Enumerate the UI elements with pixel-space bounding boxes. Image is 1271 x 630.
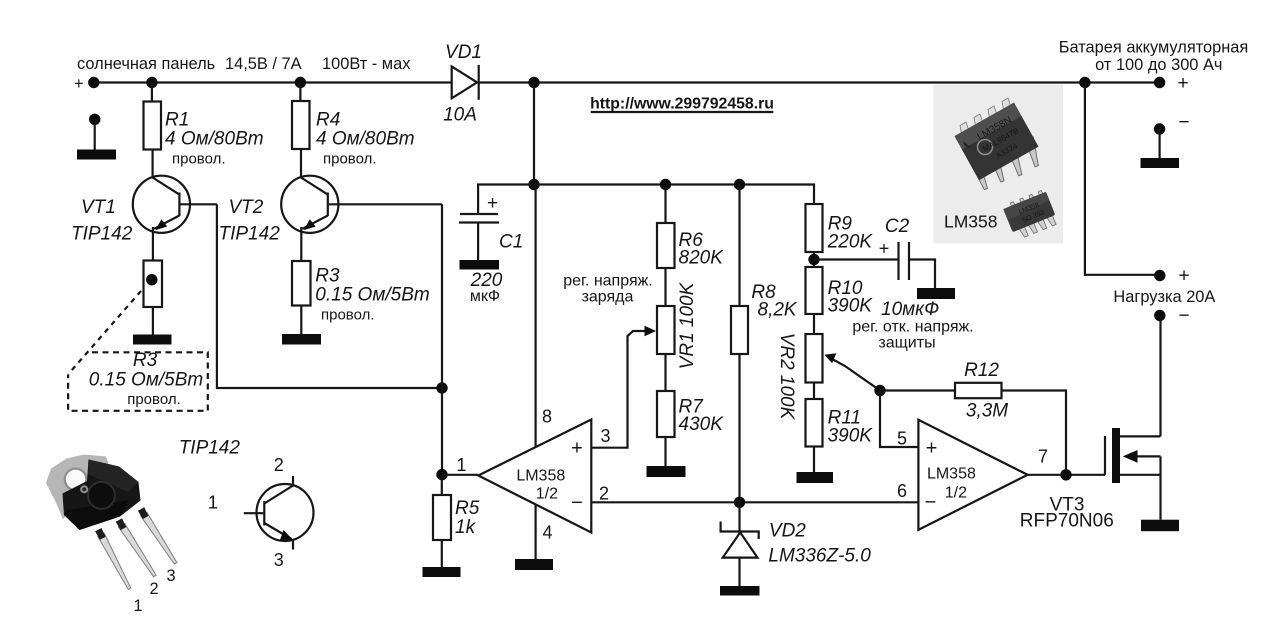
photo: LM358 packages background — [934, 85, 1064, 244]
svg-text:6: 6 — [897, 481, 907, 501]
wire C1 to ground — [477, 223, 479, 261]
svg-text:R5: R5 — [455, 498, 480, 519]
svg-text:мкФ: мкФ — [470, 288, 500, 305]
wire R9 to R10 — [813, 252, 815, 267]
svg-text:R3: R3 — [133, 350, 158, 371]
svg-text:390K: 390K — [828, 426, 874, 447]
svg-text:Батарея аккумуляторная: Батарея аккумуляторная — [1059, 39, 1249, 57]
node: R9/R10 junction — [808, 254, 819, 265]
node: VD2 tap — [734, 497, 745, 508]
svg-text:VT1: VT1 — [81, 197, 116, 218]
node: R1 tap — [146, 77, 157, 88]
transistor symbol (TIP142 pinout) — [208, 455, 314, 570]
svg-text:C1: C1 — [499, 232, 523, 253]
svg-text:LM358: LM358 — [927, 466, 976, 483]
resistor R5 — [433, 495, 480, 540]
resistor R3 — [292, 261, 430, 324]
callout dashed line — [68, 291, 141, 374]
svg-text:4 Ом/80Вт: 4 Ом/80Вт — [316, 129, 415, 150]
wire R6 to VR1 — [664, 268, 666, 306]
ground (C1) — [460, 260, 500, 270]
ground (VT3 source) — [1141, 520, 1179, 532]
svg-text:7: 7 — [1038, 447, 1048, 467]
svg-text:10A: 10A — [443, 105, 477, 126]
wire VT2 base vertical — [441, 204, 443, 474]
svg-text:+: + — [487, 193, 498, 214]
svg-text:LM336Z-5.0: LM336Z-5.0 — [768, 546, 871, 567]
svg-text:заряда: заряда — [582, 289, 634, 306]
node: C1 branch on top bus — [528, 77, 539, 88]
svg-text:430K: 430K — [679, 414, 725, 435]
ground (battery) — [1141, 158, 1180, 168]
svg-text:−: − — [1178, 306, 1189, 327]
svg-text:+: + — [74, 75, 84, 93]
ground (VT2 emitter) — [282, 334, 321, 345]
svg-text:+: + — [879, 239, 890, 259]
svg-text:R1: R1 — [165, 110, 189, 131]
wire bus to R1 — [151, 83, 153, 102]
svg-text:1/2: 1/2 — [536, 486, 558, 503]
wire bus to R4 — [299, 83, 301, 102]
svg-text:TIP142: TIP142 — [71, 224, 133, 245]
wire R12 right to output node — [1002, 391, 1067, 475]
svg-text:0.15 Ом/5Вт: 0.15 Ом/5Вт — [89, 370, 203, 391]
op-amp U1 (LM358 1/2) — [457, 407, 611, 543]
svg-text:защиты: защиты — [878, 335, 935, 352]
capacitor C2 — [814, 216, 939, 320]
wire VT1 emitter down — [152, 227, 154, 261]
wire U2 output pin7 to gate — [1028, 474, 1105, 476]
svg-text:TIP142: TIP142 — [179, 438, 241, 459]
node: battery - terminal — [1154, 123, 1165, 134]
svg-text:+: + — [926, 438, 938, 460]
op-amp U2 (LM358 1/2) — [897, 420, 1048, 530]
zener VD2 (LM336Z-5.0) — [721, 521, 872, 567]
wire VT1 base run — [217, 204, 442, 388]
svg-text:рег. отк. напряж.: рег. отк. напряж. — [852, 319, 973, 336]
svg-text:C2: C2 — [885, 216, 910, 237]
svg-text:LM358: LM358 — [944, 212, 998, 232]
wire top bus right (VD1 cathode to battery +) — [479, 81, 1160, 83]
resistor R7 — [657, 391, 724, 437]
svg-text:http://www.299792458.ru: http://www.299792458.ru — [590, 96, 774, 113]
svg-text:100Вт - мах: 100Вт - мах — [322, 55, 411, 73]
wire mid bus to R8 — [738, 185, 740, 307]
label: site link — [590, 96, 774, 113]
wire VR2 wiper to node — [824, 353, 880, 390]
svg-text:R3: R3 — [315, 266, 340, 287]
resistor R6 — [657, 223, 724, 269]
wire node1 to U1 apex — [442, 474, 478, 476]
wire battery minus to ground — [1158, 129, 1160, 158]
svg-text:VR2 100K: VR2 100K — [776, 333, 797, 421]
wire top bus left (solar+ to VD1 anode) — [94, 81, 452, 83]
node: load + terminal — [1154, 270, 1165, 281]
wire VT2 emitter down — [300, 227, 302, 261]
ground (C2) — [917, 288, 955, 299]
potentiometer VR1 — [657, 281, 698, 369]
wire node1 to R5 — [441, 475, 443, 495]
wire VR2 to R11 — [813, 383, 815, 400]
resistor R9 — [806, 204, 874, 253]
svg-text:4: 4 — [542, 523, 552, 543]
svg-text:рег. напряж.: рег. напряж. — [563, 273, 653, 290]
node: base junction — [436, 382, 447, 393]
node: mid bus junction — [528, 179, 539, 190]
svg-text:5: 5 — [897, 429, 907, 449]
svg-text:TIP142: TIP142 — [219, 224, 281, 245]
svg-text:820K: 820K — [679, 248, 725, 269]
svg-text:2: 2 — [274, 455, 284, 475]
wire VT3 drain to load minus — [1159, 316, 1161, 437]
wire VD2 top — [738, 502, 740, 531]
svg-text:провол.: провол. — [127, 391, 181, 408]
wire R1 to VT1 collector — [152, 150, 154, 179]
svg-text:+: + — [1178, 266, 1189, 287]
photo: LM358 SO-8 package — [1002, 189, 1059, 241]
svg-text:1/2: 1/2 — [945, 485, 967, 502]
svg-text:+: + — [1177, 73, 1188, 94]
wire U1 pin8 supply — [534, 185, 536, 448]
wire node to U2 pin5 — [880, 391, 918, 448]
svg-text:−: − — [571, 492, 583, 514]
svg-text:провол.: провол. — [323, 151, 377, 168]
ground (U1 pin4) — [515, 559, 553, 570]
svg-text:3: 3 — [166, 567, 175, 585]
node: pin7 junction — [1060, 469, 1071, 480]
svg-text:−: − — [925, 492, 937, 514]
svg-text:R12: R12 — [964, 360, 999, 381]
wire V+ vertical (top bus to mid bus) — [533, 83, 535, 185]
resistor (VT1 emitter, R3 ref) — [144, 261, 163, 308]
transistor VT3 (RFP70N06 MOSFET) — [1020, 428, 1161, 532]
wire VD2 to ground — [738, 558, 740, 586]
svg-text:VT2: VT2 — [229, 197, 264, 218]
wire VR1 wiper to U1 pin3 — [591, 326, 656, 448]
svg-text:3: 3 — [274, 550, 284, 570]
resistor R12 — [880, 360, 1008, 422]
svg-text:солнечная панель: солнечная панель — [77, 55, 215, 73]
svg-text:+: + — [571, 438, 583, 460]
node: load branch on top bus — [1079, 77, 1090, 88]
ground (R5) — [423, 567, 461, 577]
wire U1 pin4 to ground — [534, 504, 536, 559]
wire R10 to VR2 — [813, 314, 815, 334]
svg-text:2: 2 — [149, 580, 158, 598]
transistor VT1 — [71, 176, 217, 245]
svg-text:VD2: VD2 — [769, 521, 806, 542]
wire R7 to ground — [664, 437, 666, 466]
wire R5 to ground — [441, 540, 443, 567]
capacitor C1 — [459, 193, 523, 305]
wire mid bus — [478, 185, 814, 214]
svg-text:4 Ом/80Вт: 4 Ом/80Вт — [165, 129, 264, 150]
wire R4 to VT2 collector — [300, 149, 302, 178]
svg-text:14,5В / 7А: 14,5В / 7А — [225, 55, 302, 73]
svg-text:RFP70N06: RFP70N06 — [1020, 511, 1114, 532]
svg-text:−: − — [1178, 112, 1189, 133]
svg-text:3,3М: 3,3М — [966, 401, 1008, 422]
node: R12 left junction — [874, 385, 885, 396]
ground (VT1 emitter) — [133, 335, 172, 345]
wire R11 to ground — [813, 447, 815, 473]
node 1: op-amp U1 output node — [436, 469, 447, 480]
node: R8 tap on mid bus — [734, 179, 745, 190]
svg-text:3: 3 — [600, 426, 610, 446]
node: battery + terminal — [1154, 77, 1165, 88]
dashed box R3 note — [68, 350, 208, 411]
resistor R4 — [292, 101, 415, 168]
svg-text:10мкФ: 10мкФ — [881, 299, 939, 320]
svg-text:390K: 390K — [828, 296, 874, 317]
node: R4 tap — [295, 77, 306, 88]
wire inverting bus (U1 pin2 to U2 pin6) — [591, 501, 918, 503]
resistor R10 — [806, 267, 874, 317]
ground (R11) — [797, 472, 834, 483]
svg-text:1: 1 — [133, 597, 142, 615]
svg-text:8,2K: 8,2K — [758, 300, 798, 321]
wire VR1 to R7 — [664, 354, 666, 391]
ground (VD2) — [720, 586, 760, 596]
potentiometer VR2 — [776, 333, 823, 421]
photo: LM358 DIP-8 package — [955, 98, 1039, 190]
svg-text:VR1 100K: VR1 100K — [677, 281, 698, 369]
resistor R1 — [144, 102, 264, 168]
svg-text:LM358: LM358 — [516, 468, 565, 485]
svg-text:провол.: провол. — [172, 151, 226, 168]
photo: TIP142 TO-247 package — [46, 455, 177, 590]
wire to ground — [300, 306, 302, 335]
wire R8 to inv bus — [738, 354, 740, 502]
resistor R11 — [806, 399, 874, 447]
svg-text:2: 2 — [599, 484, 609, 504]
svg-text:1k: 1k — [455, 517, 477, 538]
wire load branch — [1085, 83, 1160, 275]
node: load - terminal — [1154, 310, 1165, 321]
svg-text:8: 8 — [542, 407, 552, 427]
wire to ground — [152, 307, 154, 335]
svg-text:VD1: VD1 — [445, 42, 482, 63]
svg-text:провол.: провол. — [321, 307, 375, 324]
transistor VT2 — [219, 176, 443, 245]
svg-text:R4: R4 — [316, 110, 340, 131]
ground (R7) — [647, 466, 686, 477]
diode VD1 — [443, 42, 482, 126]
svg-text:0.15 Ом/5Вт: 0.15 Ом/5Вт — [315, 285, 429, 306]
node: R6 tap on mid bus — [660, 179, 671, 190]
svg-text:1: 1 — [457, 455, 467, 475]
resistor R8 — [731, 282, 798, 354]
svg-text:от 100 до 300 Ач: от 100 до 300 Ач — [1095, 56, 1222, 74]
ground (solar minus) — [77, 114, 116, 160]
svg-text:Нагрузка 20А: Нагрузка 20А — [1113, 288, 1215, 306]
svg-text:1: 1 — [208, 493, 218, 513]
svg-text:220K: 220K — [827, 232, 874, 253]
wire mid bus to R6 — [664, 185, 666, 224]
